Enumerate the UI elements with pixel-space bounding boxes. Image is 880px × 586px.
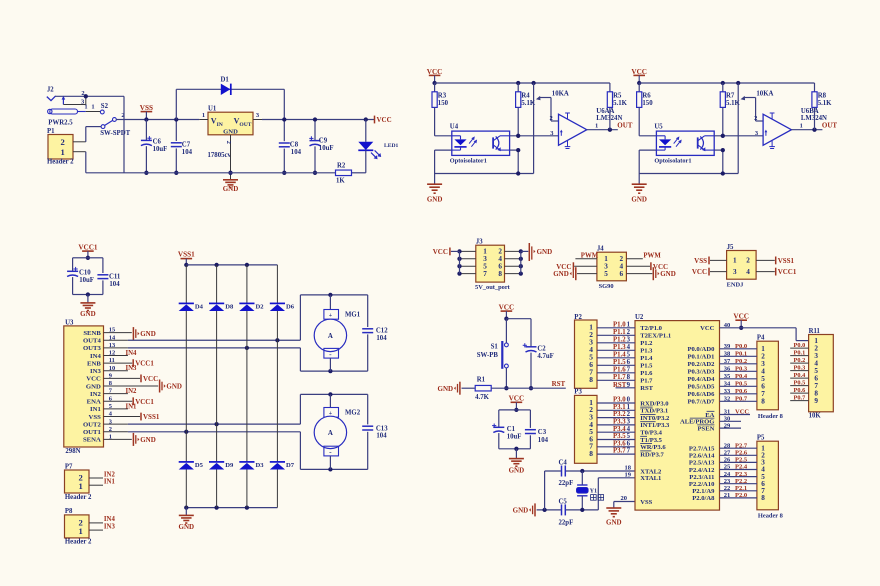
svg-text:ENDJ: ENDJ	[727, 281, 744, 288]
svg-text:P1.7: P1.7	[640, 378, 653, 385]
svg-text:3: 3	[733, 268, 737, 276]
svg-text:10K: 10K	[809, 412, 822, 419]
pin J4.3 to VCC	[556, 262, 597, 271]
svg-text:P0.6/AD6: P0.6/AD6	[687, 391, 715, 398]
pin P7.2 net IN2	[89, 471, 115, 478]
wire net P3.4 (P3.5 to U2.14)	[597, 426, 635, 433]
wire P1 pin2 to S2 throw 3	[73, 127, 101, 142]
wire J3 right pins to GND	[505, 249, 529, 276]
svg-text:SENA: SENA	[83, 437, 101, 444]
svg-text:2: 2	[746, 257, 750, 265]
ground tag at R1	[438, 382, 460, 395]
capacitor C11 104	[86, 258, 121, 297]
svg-text:IN2: IN2	[126, 388, 138, 395]
motor MG2	[314, 394, 361, 469]
svg-text:IN4: IN4	[90, 353, 101, 360]
pin U1.2 GND	[225, 135, 233, 180]
svg-text:GND: GND	[553, 270, 569, 278]
resistor R8 5.1K	[812, 83, 832, 130]
svg-text:IN2: IN2	[104, 471, 116, 478]
svg-text:GND: GND	[438, 385, 454, 393]
svg-text:VCC: VCC	[86, 376, 101, 383]
svg-text:104: 104	[291, 149, 302, 156]
svg-text:VCC: VCC	[499, 304, 515, 312]
svg-text:Header 8: Header 8	[758, 512, 783, 519]
svg-text:C3: C3	[538, 429, 547, 436]
svg-text:26: 26	[724, 457, 731, 464]
pin P7.1 net IN1	[89, 479, 115, 486]
wire net P2.6 (U2.27 to P5.2)	[720, 450, 757, 457]
svg-text:P1.2: P1.2	[640, 340, 653, 347]
svg-text:1: 1	[79, 481, 83, 491]
svg-text:P3.5: P3.5	[613, 433, 626, 440]
svg-text:C4: C4	[559, 460, 568, 467]
potentiometer R4 5.1K 10KA	[516, 83, 569, 136]
svg-text:P0.6: P0.6	[794, 387, 806, 394]
wire net P3.5 (P3.6 to U2.15)	[597, 433, 635, 440]
svg-text:2: 2	[627, 411, 631, 418]
svg-text:P0.0/AD0: P0.0/AD0	[687, 346, 715, 353]
svg-text:P0.4: P0.4	[735, 373, 748, 380]
driver U3 298N	[64, 319, 116, 455]
connector P1 Header 2	[47, 128, 74, 165]
svg-text:GND: GND	[509, 466, 525, 474]
wire OUT3 to MG1 bottom	[104, 346, 368, 374]
svg-text:2: 2	[754, 115, 757, 122]
svg-text:IN1: IN1	[126, 403, 138, 410]
wire op-amp output (opto R3)	[587, 122, 618, 132]
svg-text:P3.2: P3.2	[613, 411, 626, 418]
svg-text:VCC: VCC	[733, 313, 749, 321]
svg-text:1: 1	[595, 122, 598, 129]
pin J5.2 to VSS1	[756, 257, 794, 266]
capacitor C10 10uF	[67, 258, 94, 295]
svg-text:33: 33	[724, 388, 731, 395]
pin U3.6 ENA to VCC1	[104, 397, 155, 406]
svg-text:S2: S2	[101, 103, 109, 110]
wire opto collector to op-amp pin3 (opto R3)	[510, 134, 559, 138]
optoisolator U5 Optoisolator1	[654, 124, 714, 165]
wire net P0.3 (U2.36 to P4.4)	[720, 366, 757, 373]
svg-text:P0.5/AD5: P0.5/AD5	[687, 384, 715, 391]
svg-text:GND: GND	[537, 248, 553, 256]
svg-text:4: 4	[746, 268, 750, 276]
ground tag at J3	[529, 243, 552, 261]
svg-text:IN1: IN1	[90, 406, 101, 413]
svg-text:D2: D2	[256, 303, 265, 310]
capacitor C6 10uF	[141, 120, 167, 175]
resistor R1 4.7K	[462, 377, 492, 401]
svg-text:C6: C6	[153, 138, 162, 145]
pin R11.7 net P0.5	[790, 380, 808, 387]
power symbol VCC above S1	[499, 304, 515, 321]
ground below diode rail	[179, 508, 195, 532]
svg-text:XTAL1: XTAL1	[640, 475, 661, 482]
svg-text:P3.6: P3.6	[613, 440, 626, 447]
power symbol VCC above C1/C3	[509, 395, 525, 412]
pin U1.1	[199, 112, 208, 120]
svg-text:P0.2: P0.2	[735, 358, 747, 365]
svg-text:4: 4	[627, 344, 631, 351]
wire opto cathode to ground (opto R3)	[435, 150, 452, 173]
connector J4 SG90	[597, 246, 627, 290]
svg-text:7: 7	[627, 367, 631, 374]
svg-text:GND: GND	[223, 128, 238, 135]
wire net P0.6 (U2.33 to P4.7)	[720, 388, 757, 395]
svg-text:104: 104	[109, 281, 120, 288]
svg-text:Header 2: Header 2	[47, 159, 74, 166]
pin U3.10 IN3 net label	[104, 365, 138, 372]
svg-text:IN: IN	[217, 122, 223, 128]
svg-text:OUT2: OUT2	[83, 421, 101, 428]
potentiometer R7 5.1K 10KA	[720, 83, 773, 136]
svg-text:5.1K: 5.1K	[613, 100, 627, 107]
resistor R3 150	[432, 83, 449, 136]
connector J3 5V_out_port	[475, 239, 511, 291]
svg-text:P0.7: P0.7	[735, 396, 748, 403]
wire net P3.0 (P3.1 to U2.10)	[597, 397, 635, 404]
svg-text:1: 1	[627, 322, 631, 329]
svg-text:2: 2	[550, 115, 553, 122]
svg-text:IN3: IN3	[126, 365, 138, 372]
svg-text:P2.1/A9: P2.1/A9	[692, 488, 715, 495]
wire C4/C5 left vertical	[544, 471, 546, 510]
svg-text:Optoisolator1: Optoisolator1	[450, 158, 487, 165]
wire diode top rail VSS1	[186, 263, 277, 267]
wire input rail VSS	[124, 119, 199, 121]
svg-text:Optoisolator1: Optoisolator1	[654, 158, 691, 165]
connector P3 Header 8	[574, 388, 597, 463]
svg-text:1K: 1K	[336, 177, 345, 184]
svg-text:D3: D3	[256, 462, 265, 469]
svg-text:104: 104	[376, 335, 387, 342]
svg-text:P2.5/A13: P2.5/A13	[689, 460, 715, 467]
svg-text:P0.7/AD7: P0.7/AD7	[687, 399, 715, 406]
svg-text:38: 38	[724, 351, 731, 358]
svg-text:ENA: ENA	[87, 399, 101, 406]
svg-text:10KA: 10KA	[552, 90, 569, 97]
pin J4.4 to VCC	[626, 262, 668, 271]
pin P8.2 net IN4	[89, 516, 115, 523]
svg-text:27: 27	[724, 450, 731, 457]
power symbol VCC (opto R3)	[427, 68, 443, 85]
svg-text:P0.7: P0.7	[794, 395, 806, 402]
svg-text:OUT: OUT	[822, 122, 838, 130]
capacitor C1 10uF	[492, 410, 521, 449]
pin R11.6 net P0.4	[790, 372, 808, 379]
wire wiper vertical (opto R3)	[533, 83, 535, 174]
svg-text:VCC: VCC	[692, 268, 707, 276]
svg-text:VSS: VSS	[89, 414, 102, 421]
wire net P0.2 (U2.37 to P4.3)	[720, 358, 757, 365]
svg-text:P1.6: P1.6	[613, 367, 626, 374]
resistor network R11 10K	[809, 328, 834, 419]
svg-text:P0.3: P0.3	[794, 365, 806, 372]
svg-text:104: 104	[376, 433, 387, 440]
svg-text:R2: R2	[337, 163, 346, 170]
connector P5 Header 8	[757, 435, 783, 520]
wire net P3.2 (P3.3 to U2.12)	[597, 411, 635, 418]
svg-text:25: 25	[724, 464, 731, 471]
svg-text:IN4: IN4	[126, 350, 138, 357]
svg-text:IN3: IN3	[104, 523, 116, 530]
svg-text:21: 21	[724, 492, 731, 499]
connector J2 power jack PWR2.5	[47, 87, 124, 127]
svg-text:10uF: 10uF	[79, 277, 94, 284]
svg-text:23: 23	[724, 478, 731, 485]
svg-text:U4: U4	[450, 124, 459, 131]
svg-text:5: 5	[627, 433, 631, 440]
wire net P0.7 (U2.32 to P4.8)	[720, 396, 757, 403]
wire net P3.3 (P3.4 to U2.13)	[597, 419, 635, 426]
svg-text:RXD/P3.0: RXD/P3.0	[640, 400, 669, 407]
capacitor C2 4.7uF	[506, 319, 553, 391]
svg-text:P1.3: P1.3	[640, 348, 653, 355]
svg-text:1: 1	[627, 404, 631, 411]
diode D3	[239, 462, 264, 508]
wire XTAL2 row	[545, 465, 635, 474]
pin J5.4 to VCC1	[756, 268, 797, 277]
svg-text:1: 1	[202, 112, 205, 119]
svg-text:GND: GND	[166, 383, 182, 391]
svg-text:8: 8	[589, 449, 593, 458]
svg-text:J2: J2	[47, 87, 54, 94]
svg-text:VCC: VCC	[377, 116, 392, 124]
diode D4	[179, 265, 204, 462]
svg-text:+: +	[329, 313, 333, 319]
svg-text:22: 22	[724, 485, 731, 492]
svg-text:U1: U1	[208, 105, 217, 112]
svg-text:VCC1: VCC1	[778, 268, 797, 276]
resistor R6 150	[637, 83, 654, 136]
pin U3.1 SENA to ground tag	[104, 433, 156, 446]
ground below C10/C11	[80, 295, 96, 319]
svg-text:5: 5	[627, 352, 631, 359]
svg-text:32: 32	[724, 396, 731, 403]
svg-text:P1.5: P1.5	[640, 363, 653, 370]
wire output rail VCC	[262, 119, 374, 121]
power symbol VCC (opto R6)	[631, 68, 647, 85]
svg-text:P4: P4	[757, 335, 765, 342]
svg-text:VCC1: VCC1	[135, 360, 154, 368]
crystal Y1	[576, 471, 603, 510]
svg-text:GND: GND	[140, 436, 156, 444]
svg-text:A: A	[328, 333, 333, 340]
svg-text:2: 2	[61, 137, 65, 147]
svg-text:R5: R5	[613, 93, 622, 100]
pin U3.5 IN1 net label	[104, 403, 138, 410]
pin U3.11 ENB to VCC1	[104, 359, 155, 368]
svg-text:39: 39	[724, 343, 731, 350]
svg-text:19: 19	[625, 471, 632, 478]
wire net P2.1 (U2.22 to P5.7)	[720, 485, 757, 492]
wire op-amp output (opto R6)	[791, 122, 822, 132]
wire net P2.2 (U2.23 to P5.6)	[720, 478, 757, 485]
svg-text:8: 8	[498, 270, 502, 278]
diode D1 bypass loop	[176, 89, 284, 119]
pin R11.8 net P0.6	[790, 387, 808, 394]
pin U2.30 ALE	[720, 416, 742, 423]
svg-text:24: 24	[724, 471, 731, 478]
svg-text:T2/P1.0: T2/P1.0	[640, 325, 662, 332]
svg-text:P1.0: P1.0	[613, 322, 626, 329]
net label OUT (opto R3)	[617, 122, 633, 130]
svg-text:P0.4/AD4: P0.4/AD4	[687, 376, 715, 383]
pin U2.29 PSEN	[720, 422, 742, 429]
svg-text:P2.3/A11: P2.3/A11	[689, 474, 714, 481]
wire net P1.3 (P2.4 to U2.4)	[597, 344, 635, 351]
power port VCC at J3	[433, 248, 450, 257]
ground (opto R3)	[427, 174, 443, 204]
wire R3 to opto anode	[435, 135, 452, 137]
svg-text:IN3: IN3	[90, 368, 101, 375]
svg-text:OUT: OUT	[239, 122, 251, 128]
svg-text:P3.0: P3.0	[613, 397, 626, 404]
pin J4.2 net PWM	[626, 252, 661, 259]
pin J4.5 to GND tag	[553, 267, 597, 280]
svg-text:VCC: VCC	[143, 375, 158, 383]
svg-text:GND: GND	[660, 270, 676, 278]
op-amp U6AA LM324N	[550, 108, 623, 148]
svg-text:P0.5: P0.5	[794, 380, 806, 387]
capacitor C13 104	[362, 394, 388, 469]
wire RST net	[492, 380, 566, 388]
switch S1 SW-PB	[477, 319, 509, 391]
pin R11.3 net P0.1	[790, 350, 808, 357]
pin J5.1 to VSS	[694, 257, 726, 266]
power symbol VCC at U2.40	[733, 313, 749, 330]
svg-text:2: 2	[627, 329, 631, 336]
wire opto emitter (opto R3)	[510, 148, 521, 174]
wire net P1.1 (P2.2 to U2.2)	[597, 329, 635, 336]
svg-text:ENB: ENB	[87, 360, 101, 367]
svg-text:Header 8: Header 8	[758, 413, 783, 420]
svg-text:8: 8	[761, 494, 765, 502]
svg-text:6: 6	[627, 440, 631, 447]
capacitor C4 22pF	[559, 460, 574, 487]
svg-text:P1.2: P1.2	[613, 337, 626, 344]
svg-text:28: 28	[724, 442, 731, 449]
svg-text:17805cv: 17805cv	[208, 152, 232, 159]
svg-text:C7: C7	[182, 142, 191, 149]
svg-text:J5: J5	[727, 244, 734, 251]
svg-text:RST: RST	[552, 380, 566, 388]
pin J5.3 to VCC	[692, 268, 727, 277]
svg-text:P0.4: P0.4	[794, 372, 807, 379]
svg-text:IN2: IN2	[90, 391, 101, 398]
svg-text:C12: C12	[376, 328, 388, 335]
svg-text:D5: D5	[195, 462, 204, 469]
svg-text:SW-PB: SW-PB	[477, 352, 499, 359]
ground tag left of C5	[513, 503, 535, 516]
svg-text:P2.6/A14: P2.6/A14	[689, 453, 715, 460]
wire VCC rail (opto R6)	[639, 81, 814, 85]
diode D6	[270, 265, 295, 462]
wire net P2.0 (U2.21 to P5.8)	[720, 492, 757, 499]
svg-text:C11: C11	[109, 274, 121, 281]
capacitor C9 10uF	[309, 117, 333, 175]
svg-text:P3.3: P3.3	[613, 419, 626, 426]
wire jack vertical	[123, 96, 125, 173]
pin U3.4 VSS to VSS1	[104, 413, 160, 422]
svg-text:D6: D6	[286, 303, 295, 310]
junction J2 pin2	[84, 94, 88, 98]
pin R11.5 net P0.3	[790, 365, 808, 372]
svg-text:D7: D7	[286, 462, 295, 469]
svg-text:P0.3: P0.3	[735, 366, 748, 373]
svg-text:VCC: VCC	[735, 409, 749, 416]
svg-text:10uF: 10uF	[153, 146, 168, 153]
svg-text:10KA: 10KA	[756, 90, 773, 97]
svg-text:VCC: VCC	[427, 68, 443, 76]
svg-text:7: 7	[483, 270, 487, 278]
power port VSS	[140, 104, 153, 122]
svg-text:OUT1: OUT1	[83, 429, 101, 436]
svg-text:U5: U5	[654, 124, 663, 131]
svg-text:S1: S1	[491, 343, 499, 350]
svg-text:3: 3	[627, 419, 631, 426]
svg-text:4: 4	[627, 426, 631, 433]
svg-text:C10: C10	[79, 270, 91, 277]
regulator U1 17805cv	[208, 105, 254, 159]
svg-text:R6: R6	[642, 93, 651, 100]
motor MG1	[314, 295, 361, 371]
wire wiper vertical (opto R6)	[737, 83, 739, 174]
svg-text:D1: D1	[221, 77, 230, 84]
svg-text:P0.3/AD3: P0.3/AD3	[687, 369, 715, 376]
svg-text:J4: J4	[597, 246, 604, 253]
wire net P0.5 (U2.34 to P4.6)	[720, 381, 757, 388]
wire net P3.7 (P3.8 to U2.17)	[597, 448, 635, 455]
pin U2.31 EA to VCC	[720, 409, 751, 416]
svg-text:Header 2: Header 2	[65, 494, 92, 501]
svg-text:P2.0: P2.0	[735, 492, 747, 499]
capacitor C12 104	[362, 295, 388, 371]
svg-text:150: 150	[438, 100, 449, 107]
svg-text:8: 8	[589, 375, 593, 384]
svg-text:VSS1: VSS1	[143, 413, 160, 421]
svg-text:INT0/P3.2: INT0/P3.2	[640, 415, 670, 422]
connector P4 Header 8	[757, 335, 783, 420]
wire net P2.7 (U2.28 to P5.1)	[720, 442, 757, 449]
svg-text:37: 37	[724, 358, 731, 365]
svg-text:P0.1: P0.1	[794, 350, 806, 357]
svg-text:P3: P3	[574, 388, 582, 395]
ground below U1	[223, 180, 239, 193]
svg-text:OUT4: OUT4	[83, 338, 101, 345]
svg-text:VCC: VCC	[700, 325, 715, 332]
capacitor C3 104	[514, 410, 548, 451]
svg-text:P1.1: P1.1	[613, 329, 626, 336]
svg-text:U2: U2	[635, 314, 644, 321]
svg-text:8: 8	[761, 398, 765, 406]
svg-text:SENB: SENB	[83, 330, 101, 337]
svg-text:C8: C8	[290, 142, 299, 149]
wire pot wiper to op-amp pin2 (opto R6)	[756, 98, 764, 122]
svg-text:P0.1/AD1: P0.1/AD1	[687, 354, 714, 361]
wire net P2.3 (U2.24 to P5.5)	[720, 471, 757, 478]
svg-text:TXD/P3.1: TXD/P3.1	[640, 408, 668, 415]
wire XTAL1 row	[598, 471, 635, 510]
svg-text:VCC1: VCC1	[78, 243, 98, 251]
svg-text:P2.2/A10: P2.2/A10	[689, 481, 715, 488]
pin J4.1 net PWM	[575, 253, 598, 260]
connector J5 ENDJ	[727, 244, 757, 288]
pin J4.6 to GND tag	[626, 267, 675, 280]
svg-text:C1: C1	[507, 426, 516, 433]
wire U2.40 to R11 pin1	[720, 322, 809, 341]
svg-text:PWR2.5: PWR2.5	[48, 119, 73, 126]
